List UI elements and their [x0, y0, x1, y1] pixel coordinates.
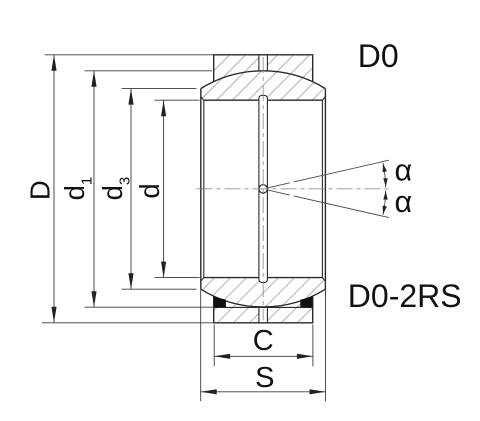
alpha arc upper: [383, 163, 386, 188]
d1 arrows: [91, 71, 96, 307]
extension lines d3: [122, 89, 197, 290]
bore lines: [204, 100, 323, 277]
seal recess line: [214, 306, 313, 308]
extension lines d: [154, 100, 199, 277]
d3 arrows: [128, 89, 133, 290]
dimension line S: [201, 391, 326, 393]
dimension line C: [214, 355, 313, 357]
horizontal centerline: [197, 188, 393, 190]
alpha arc lower: [383, 190, 386, 215]
seal left (2RS): [214, 296, 226, 307]
inner ring bottom section hatch: [201, 278, 326, 307]
extension lines D: [42, 55, 214, 323]
svg-text:C: C: [253, 325, 274, 357]
extension lines C: [214, 325, 313, 367]
dimension line d1: [93, 71, 95, 307]
dimension line d3: [130, 89, 132, 290]
alpha line lower: [267, 190, 389, 218]
D arrows: [51, 55, 56, 323]
extension lines S: [201, 289, 326, 401]
svg-text:d: d: [134, 183, 165, 198]
svg-text:D: D: [25, 180, 56, 200]
svg-text:D0: D0: [358, 38, 399, 74]
lube groove notch bottom: [259, 278, 268, 283]
dimension line D: [53, 55, 55, 323]
outer ring top outline: [214, 55, 313, 82]
svg-text:S: S: [255, 362, 274, 394]
bore chamfers: [201, 97, 326, 282]
dimension line d: [163, 100, 165, 277]
outer ring bottom section hatch: [214, 296, 313, 323]
outer ring bottom lube hole: [259, 307, 268, 323]
extension lines d1: [85, 71, 214, 307]
sphere arc bottom: [201, 289, 326, 307]
outer ring top section hatch: [214, 55, 313, 82]
bore chamfer edge lines: [204, 100, 323, 277]
lube groove band through bore: [259, 100, 268, 277]
inner ring right face: [324, 89, 326, 290]
alpha line upper: [267, 160, 389, 188]
outer ring bottom outline: [214, 296, 313, 323]
alpha arc upper arrowheads: [383, 163, 388, 186]
vertical centerline: [262, 57, 264, 321]
S arrows: [201, 389, 326, 394]
sphere arc top: [201, 71, 326, 89]
svg-text:D0-2RS: D0-2RS: [348, 278, 462, 314]
seal right (2RS): [300, 296, 312, 307]
sphere center lube hole circle: [259, 185, 267, 193]
alpha arc lower arrowheads: [383, 191, 388, 214]
C arrows: [214, 354, 313, 359]
svg-text:α: α: [394, 185, 412, 219]
svg-text:α: α: [394, 154, 412, 188]
inner ring top section hatch: [201, 71, 326, 100]
lube groove notch top: [259, 95, 268, 100]
d arrows: [161, 100, 166, 277]
outer ring top lube hole: [259, 55, 268, 71]
inner ring left face: [200, 89, 202, 290]
